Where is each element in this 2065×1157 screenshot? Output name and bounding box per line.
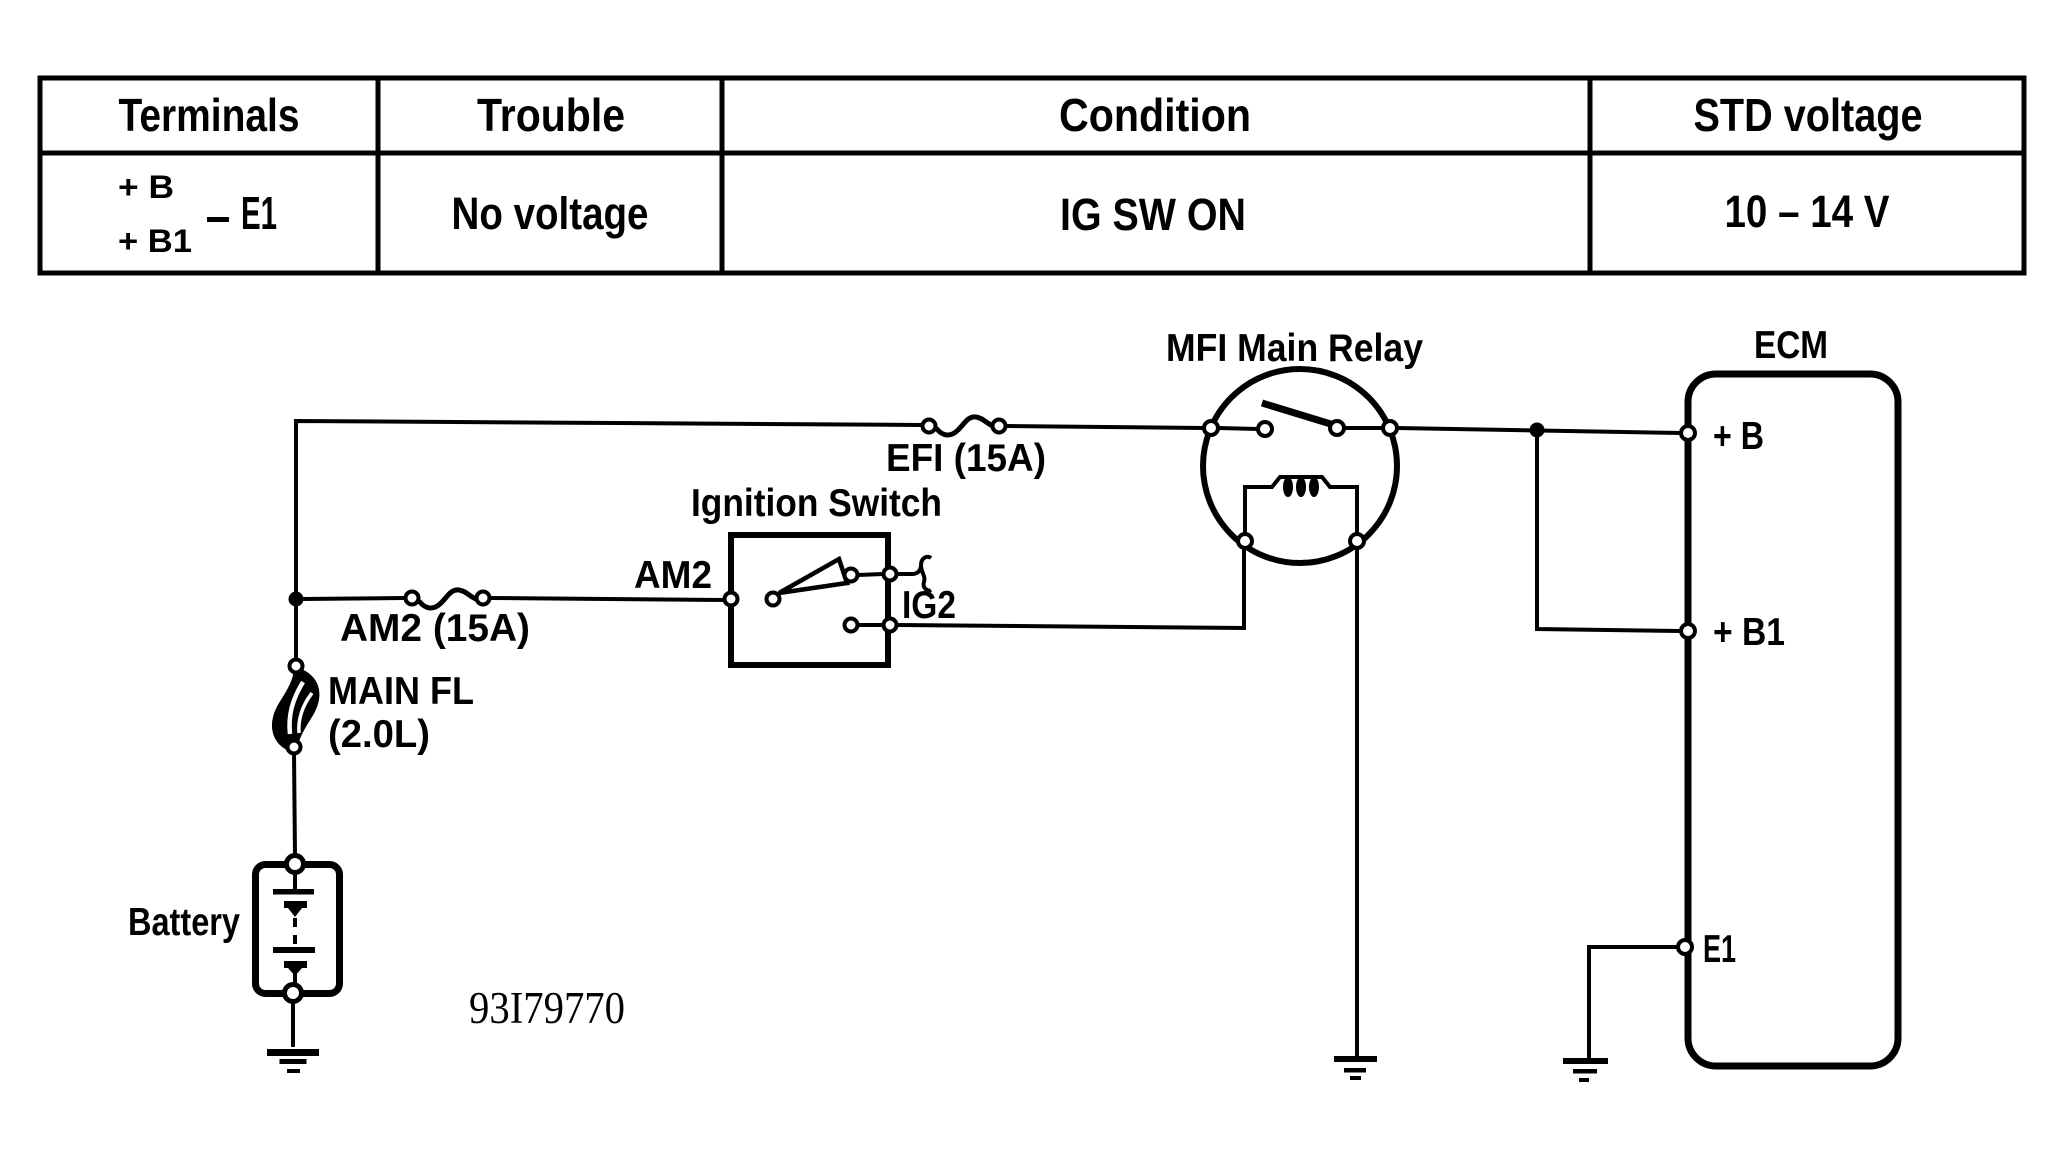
svg-text:No voltage: No voltage xyxy=(452,188,649,239)
svg-text:ECM: ECM xyxy=(1754,324,1828,367)
svg-text:+ B: + B xyxy=(118,169,174,205)
svg-text:Terminals: Terminals xyxy=(119,89,300,141)
svg-text:(2.0L): (2.0L) xyxy=(328,713,430,756)
svg-text:+ B1: + B1 xyxy=(1713,611,1785,654)
svg-text:EFI (15A): EFI (15A) xyxy=(886,437,1046,480)
svg-text:IG SW ON: IG SW ON xyxy=(1060,189,1246,240)
svg-text:AM2 (15A): AM2 (15A) xyxy=(340,607,530,650)
svg-text:+ B1: + B1 xyxy=(118,223,192,259)
svg-text:MFI Main Relay: MFI Main Relay xyxy=(1166,327,1423,370)
svg-text:Condition: Condition xyxy=(1059,89,1251,141)
svg-text:+ B: + B xyxy=(1713,415,1764,458)
svg-text:10 – 14 V: 10 – 14 V xyxy=(1725,186,1890,237)
svg-text:E1: E1 xyxy=(1703,928,1736,971)
svg-text:E1: E1 xyxy=(241,187,277,239)
svg-text:AM2: AM2 xyxy=(634,554,712,597)
svg-text:93I79770: 93I79770 xyxy=(469,983,625,1033)
svg-text:MAIN FL: MAIN FL xyxy=(328,670,474,713)
svg-text:STD voltage: STD voltage xyxy=(1694,89,1923,141)
svg-text:Battery: Battery xyxy=(128,901,240,944)
svg-text:Trouble: Trouble xyxy=(477,89,625,141)
svg-text:Ignition Switch: Ignition Switch xyxy=(691,482,942,525)
svg-text:IG2: IG2 xyxy=(902,584,956,627)
